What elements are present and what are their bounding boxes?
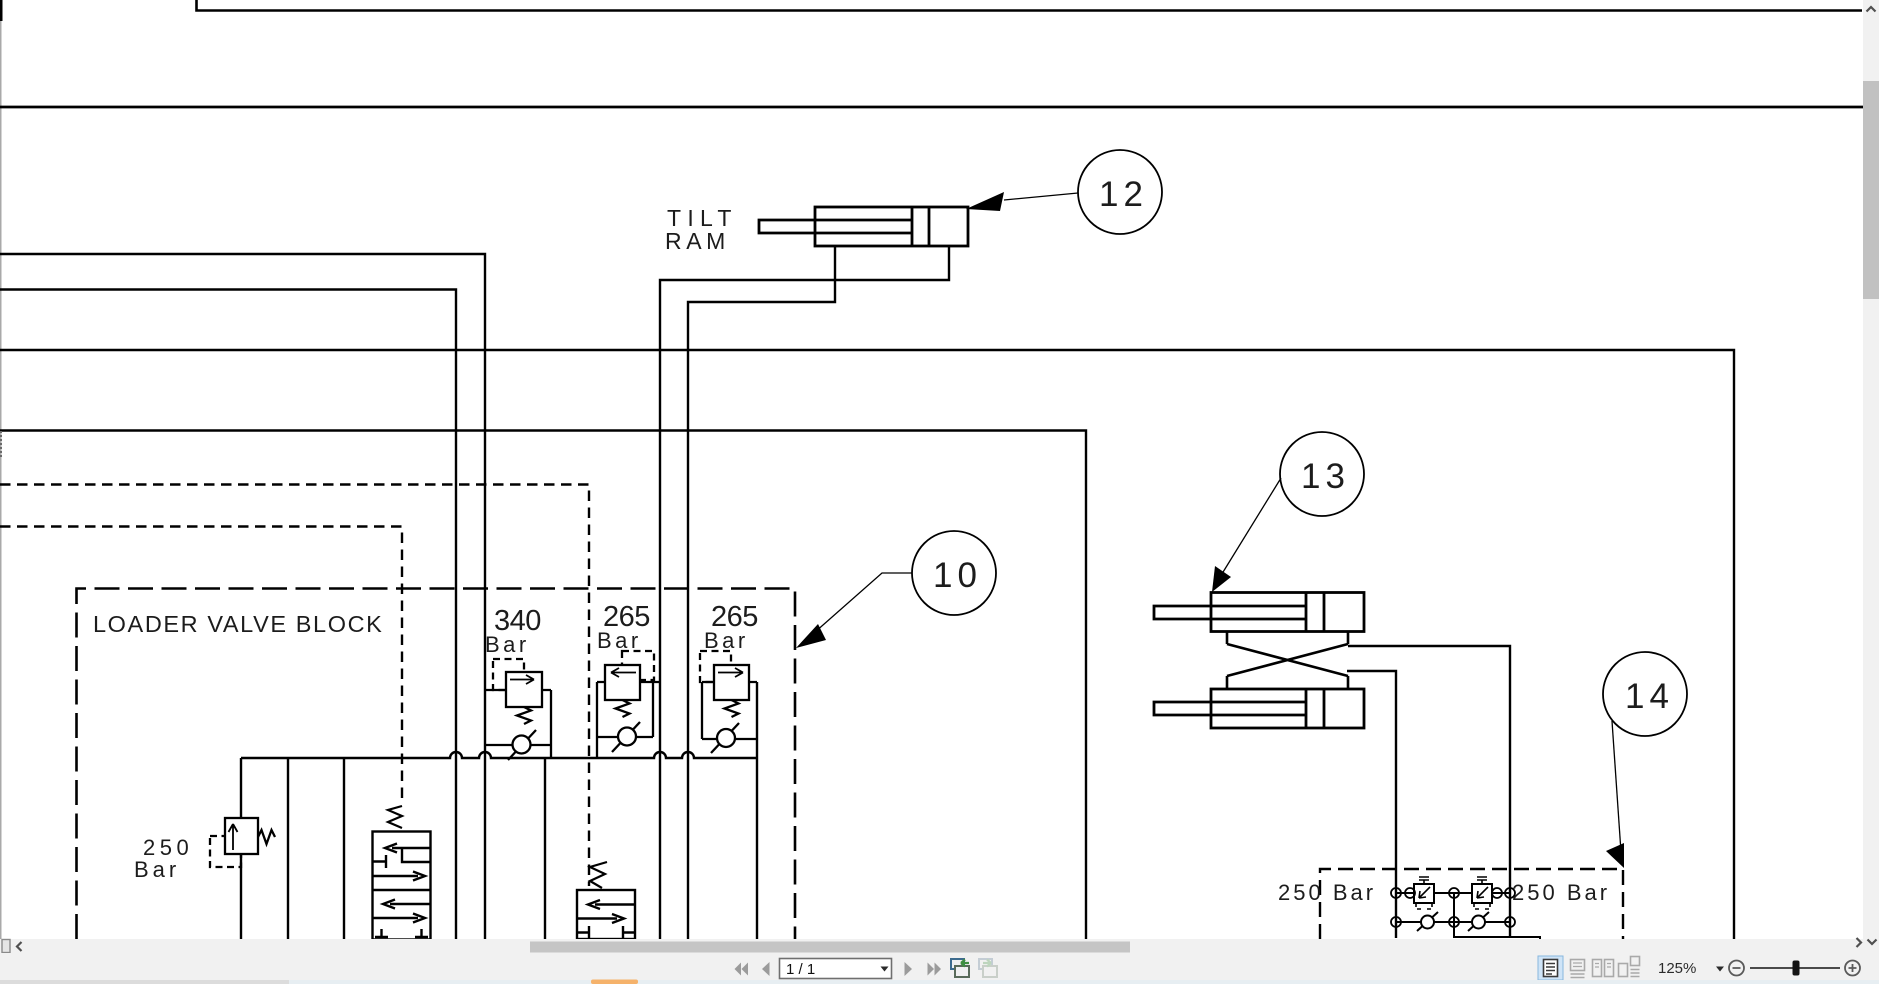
main gallery pipe with crossover humps [241, 752, 757, 758]
check valve right [1468, 912, 1489, 931]
svg-text:LOADER VALVE BLOCK: LOADER VALVE BLOCK [93, 611, 383, 637]
cylinder pair item 13 : top cylinder [1154, 593, 1364, 632]
svg-text:Bar: Bar [597, 628, 642, 653]
check block top wire [1396, 892, 1510, 894]
svg-text:12: 12 [1099, 175, 1148, 214]
horizontal scrollbar thumb [530, 942, 1130, 953]
sheet title border corner [197, 0, 1863, 11]
wire upper yoke to check block [1348, 646, 1510, 938]
junction nodes top row [1391, 888, 1515, 898]
svg-text:250 Bar: 250 Bar [1512, 880, 1610, 905]
check block mid vertical [1454, 893, 1540, 939]
spool valve section A [373, 806, 431, 940]
toolbar next page button [905, 962, 913, 976]
callout 12 [966, 150, 1162, 234]
sheet separator line [0, 106, 1863, 109]
svg-text:10: 10 [933, 556, 982, 595]
svg-text:Bar: Bar [485, 632, 530, 657]
pilot line lower dashed [0, 527, 402, 805]
zoom slider thumb [1793, 961, 1800, 976]
horizontal scrollbar left arrow [17, 942, 22, 951]
vertical scrollbar thumb [1863, 81, 1879, 299]
pilot relief valve left [1414, 877, 1434, 909]
previous view icon [951, 959, 969, 977]
bottom toolbar [0, 953, 1879, 984]
vertical scrollbar track [1863, 0, 1879, 939]
feed line 1 [287, 758, 289, 939]
junction nodes bottom row [1391, 917, 1515, 927]
feed line 3 [544, 758, 546, 939]
feed line 2 [343, 758, 345, 939]
taskbar orange sliver [591, 980, 638, 984]
pilot relief valve right [1472, 877, 1492, 909]
dual check block enclosure (item 14) [1320, 869, 1623, 939]
toolbar last page button [928, 963, 942, 976]
inner boundary box [0, 431, 1086, 940]
layout icon continuous facing [1619, 957, 1640, 977]
callout 10 [796, 531, 996, 648]
cylinder pair item 13 : bottom cylinder [1154, 689, 1364, 728]
toolbar first page button [735, 963, 749, 976]
relief valve 265 Bar right [700, 651, 757, 753]
sheet corner sliver top-left [0, 0, 3, 21]
zoom in button [1845, 961, 1860, 976]
zoom slider track [1750, 967, 1840, 969]
svg-text:1 / 1: 1 / 1 [786, 961, 815, 978]
svg-text:Bar: Bar [134, 857, 180, 882]
svg-text:13: 13 [1301, 457, 1350, 496]
pipe left drop [240, 758, 242, 939]
pilot line upper dashed [0, 485, 589, 887]
relief valve 340 Bar [485, 659, 551, 760]
callout 14 [1603, 652, 1687, 868]
zoom out button [1729, 961, 1744, 976]
horizontal scrollbar strip [0, 939, 1879, 953]
tilt ram cylinder (item 12) [759, 207, 968, 246]
wire tilt ram port A [688, 246, 835, 939]
horizontal scrollbar right arrow [1857, 938, 1862, 947]
zoom dropdown caret [1716, 967, 1724, 972]
page number box [780, 959, 892, 979]
toolbar prev page button [762, 962, 770, 976]
left edge clipped dashes [0, 431, 2, 458]
svg-text:250 Bar: 250 Bar [1278, 880, 1376, 905]
wire upper-left 1 [0, 254, 485, 939]
layout icon continuous [1571, 960, 1585, 978]
loader valve block enclosure [77, 589, 796, 940]
pipe right drop [756, 682, 758, 939]
callout 13 [1212, 432, 1364, 592]
bottom edge strip [0, 980, 1879, 984]
page box dropdown caret [881, 967, 889, 972]
spool valve section B [577, 862, 635, 939]
vertical scrollbar down arrow [1868, 940, 1877, 945]
wire lower yoke to check block [1347, 671, 1396, 938]
page widget icon [2, 940, 10, 953]
window left border [0, 0, 2, 939]
svg-text:Bar: Bar [704, 628, 749, 653]
layout icon single page (selected) [1538, 956, 1563, 980]
next view icon (disabled) [979, 959, 997, 977]
relief valve 265 Bar left [597, 651, 660, 758]
svg-text:125%: 125% [1658, 960, 1696, 977]
wire upper-left 2 [0, 290, 456, 940]
svg-text:RAM: RAM [665, 228, 730, 254]
relief valve 250 Bar [210, 818, 275, 867]
scissor yoke between cylinders [1227, 632, 1348, 690]
check valve left [1417, 912, 1438, 931]
wire tilt ram port B [660, 246, 949, 939]
layout icon facing [1593, 960, 1614, 977]
check block bottom wire [1396, 921, 1510, 923]
vertical scrollbar up arrow [1867, 7, 1876, 12]
outer boundary box [0, 350, 1734, 939]
svg-text:14: 14 [1625, 677, 1674, 716]
